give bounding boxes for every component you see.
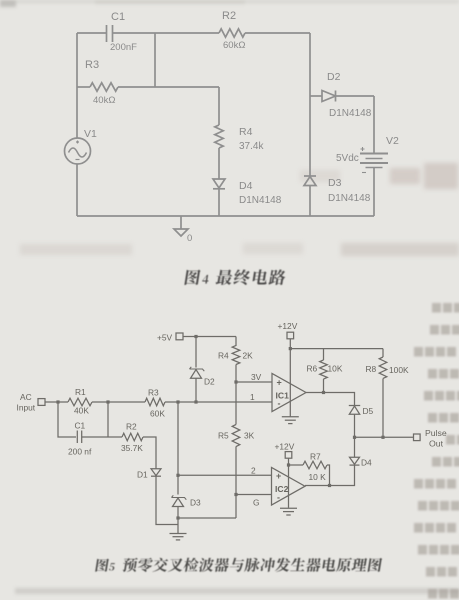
svg-text:V2: V2 — [386, 135, 399, 147]
resistor R7 — [303, 461, 327, 469]
wire junction drop x155 — [154, 33, 156, 87]
wire ground row to G riser — [178, 517, 236, 519]
svg-text:-: - — [278, 399, 281, 409]
op-amp IC2 — [272, 468, 306, 506]
wire R4 to 3V node — [235, 365, 237, 383]
svg-text:C1: C1 — [111, 11, 125, 23]
capacitor C1 — [107, 25, 113, 42]
capacitor C1b — [77, 431, 81, 444]
zener D2b — [190, 367, 205, 379]
node R7 IC2 — [287, 463, 290, 466]
svg-text:Input: Input — [17, 403, 36, 413]
wire C1 branch right — [82, 436, 108, 438]
node 3V x236 — [234, 380, 237, 383]
svg-text:3K: 3K — [244, 431, 255, 441]
svg-text:2: 2 — [251, 466, 256, 476]
resistor R2b — [122, 433, 143, 441]
svg-text:+12V: +12V — [275, 442, 295, 452]
resistor R2 — [219, 29, 245, 37]
source V1 — [65, 138, 91, 164]
svg-text:D4: D4 — [239, 180, 253, 192]
wire branch x219 middle — [218, 148, 220, 179]
node ground x178 — [176, 516, 179, 519]
wire drop x178 — [177, 402, 179, 495]
svg-text:2K: 2K — [243, 351, 254, 361]
node pulse D5 — [353, 436, 356, 439]
wire riser x108 — [107, 402, 109, 437]
svg-text:R7: R7 — [310, 452, 321, 462]
wire R6 bottom lead — [323, 379, 325, 393]
svg-text:R4: R4 — [218, 351, 229, 361]
node pin2 x178 — [176, 474, 179, 477]
wire +12V rail fig5 — [290, 348, 383, 350]
wire R1 to R3 — [92, 401, 145, 403]
wire R3 row left — [77, 86, 90, 88]
wire x236 3V to R5 — [235, 382, 237, 425]
wire +5V rail — [183, 336, 236, 338]
resistor R3b — [145, 398, 165, 406]
wire R2 to D1 drop — [143, 437, 156, 469]
ground IC1 — [282, 417, 299, 424]
wire R8 drop — [382, 349, 384, 357]
wire D4 top lead — [354, 437, 356, 457]
node main x178 — [176, 400, 179, 403]
node rail x290 — [289, 347, 292, 350]
ground left — [170, 534, 187, 540]
caption fig4 — [184, 269, 286, 285]
svg-text:100K: 100K — [389, 365, 409, 375]
wire R3 row right — [118, 86, 219, 88]
svg-text:40K: 40K — [74, 406, 89, 416]
svg-text:R8: R8 — [366, 364, 377, 374]
svg-text:+: + — [277, 378, 282, 388]
svg-text:C1: C1 — [75, 421, 86, 431]
wire pulse row — [355, 436, 414, 438]
wire left rail lower — [76, 164, 78, 216]
wire R7 left lead — [289, 464, 304, 466]
wire G row — [236, 494, 272, 496]
wire C1 row to R2 — [108, 436, 122, 438]
node +5V D2 — [194, 335, 197, 338]
node main x196 — [194, 400, 197, 403]
svg-text:40kΩ: 40kΩ — [93, 95, 115, 106]
wire right rail lower — [309, 186, 311, 217]
terminal AC input — [38, 399, 45, 406]
svg-text:+5V: +5V — [157, 333, 173, 343]
wire pin2 row — [178, 474, 272, 476]
svg-text:R2: R2 — [126, 422, 137, 432]
svg-text:3V: 3V — [251, 372, 262, 382]
svg-text:D4: D4 — [361, 458, 372, 468]
diode D1 — [151, 469, 161, 477]
resistor R5 — [232, 425, 240, 447]
wire D2 anode — [310, 95, 322, 97]
svg-text:R4: R4 — [239, 126, 253, 138]
node R7 output — [328, 484, 331, 487]
wire D2 branch upper — [195, 337, 197, 368]
svg-text:D3: D3 — [328, 177, 342, 189]
terminal +12V IC1 — [287, 332, 294, 339]
svg-text:10K: 10K — [328, 364, 343, 374]
resistor R6 — [320, 360, 328, 379]
svg-text:-: - — [277, 493, 280, 503]
op-amp IC1 — [272, 374, 306, 412]
wire D4 to IC2 output row — [305, 465, 355, 485]
svg-text:R6: R6 — [307, 364, 318, 374]
svg-text:Pulse: Pulse — [425, 428, 447, 438]
wire D3 to ground node — [177, 507, 179, 534]
wire branch x219 lower — [218, 189, 220, 216]
node R6 output — [322, 391, 325, 394]
wire top rail left segment — [77, 32, 107, 34]
node G x236 — [234, 493, 237, 496]
wire D1 to ground run — [156, 476, 178, 524]
svg-text:60K: 60K — [150, 409, 165, 419]
caption fig5 — [95, 558, 382, 572]
wire R6 top lead — [323, 349, 325, 360]
svg-text:D1N4148: D1N4148 — [239, 195, 282, 206]
diode D4 — [213, 179, 225, 189]
resistor R8 — [379, 357, 387, 378]
svg-text:0: 0 — [187, 233, 192, 244]
node pulse R8 — [381, 436, 384, 439]
diode D4b — [350, 457, 360, 465]
wire D5 to pulse node — [354, 414, 356, 437]
svg-text:R3: R3 — [148, 388, 159, 398]
wire +12V IC1 drop — [289, 339, 291, 417]
wire +12V IC2 drop — [288, 458, 290, 508]
ground IC2 — [280, 508, 297, 515]
svg-text:D5: D5 — [363, 406, 374, 416]
svg-text:D3: D3 — [190, 498, 201, 508]
zener D3 — [172, 495, 187, 506]
diode D3 — [304, 176, 316, 186]
wire D2 cathode to battery — [336, 95, 375, 97]
svg-text:R5: R5 — [218, 431, 229, 441]
svg-text:AC: AC — [20, 392, 32, 402]
svg-text:D2: D2 — [204, 377, 215, 387]
wire battery top lead — [373, 96, 375, 154]
svg-text:37.4k: 37.4k — [239, 141, 264, 152]
node R1 right junction — [106, 400, 109, 403]
wire AC to R1 — [45, 401, 68, 403]
wire right rail upper — [309, 33, 311, 176]
diode D2 — [322, 91, 336, 102]
wire bottom rail — [77, 215, 374, 217]
svg-text:200nF: 200nF — [110, 42, 137, 53]
diode D5 — [349, 406, 360, 415]
wire C1 branch left drop — [58, 402, 76, 437]
svg-text:R3: R3 — [85, 59, 99, 71]
wire battery bottom lead — [373, 168, 375, 217]
terminal pulse out — [414, 434, 421, 441]
svg-text:10 K: 10 K — [309, 472, 327, 482]
svg-text:R1: R1 — [75, 387, 86, 397]
wire R7 right lead drop — [327, 465, 330, 486]
svg-text:60kΩ: 60kΩ — [223, 40, 245, 51]
svg-text:+12V: +12V — [278, 321, 298, 331]
wire branch x219 upper — [218, 87, 220, 125]
wire R5 to G node — [235, 447, 237, 519]
svg-text:D1: D1 — [137, 470, 148, 480]
svg-text:D1N4148: D1N4148 — [329, 108, 372, 119]
svg-text:G: G — [253, 498, 260, 508]
terminal +5V — [176, 333, 183, 340]
svg-text:D1N4148: D1N4148 — [328, 193, 371, 204]
resistor R1 — [68, 398, 92, 406]
svg-text:+: + — [276, 471, 281, 481]
wire D2 branch lower — [195, 378, 197, 402]
wire top rail middle segment — [113, 32, 220, 34]
ground 0 — [174, 216, 188, 236]
svg-text:1: 1 — [250, 392, 255, 402]
resistor R3 — [90, 83, 118, 91]
wire main to IC1 inverting input — [165, 401, 272, 403]
svg-text:35.7K: 35.7K — [121, 443, 143, 453]
svg-text:D2: D2 — [327, 71, 341, 83]
svg-text:5Vdc: 5Vdc — [336, 153, 359, 164]
resistor R4 — [215, 125, 223, 148]
node AC junction — [56, 400, 59, 403]
wire IC1 output row — [306, 393, 355, 406]
svg-text:Out: Out — [429, 439, 444, 449]
battery V2 — [360, 147, 388, 173]
terminal +12V IC2 — [285, 452, 292, 459]
resistor R4b — [232, 337, 240, 365]
svg-text:200 nf: 200 nf — [68, 447, 92, 457]
svg-text:V1: V1 — [84, 128, 97, 140]
wire R8 to pulse node — [382, 379, 384, 438]
svg-text:R2: R2 — [222, 10, 236, 22]
wire top rail right segment — [245, 32, 310, 34]
wire 3V row — [236, 381, 272, 383]
wire left rail upper — [76, 33, 78, 138]
